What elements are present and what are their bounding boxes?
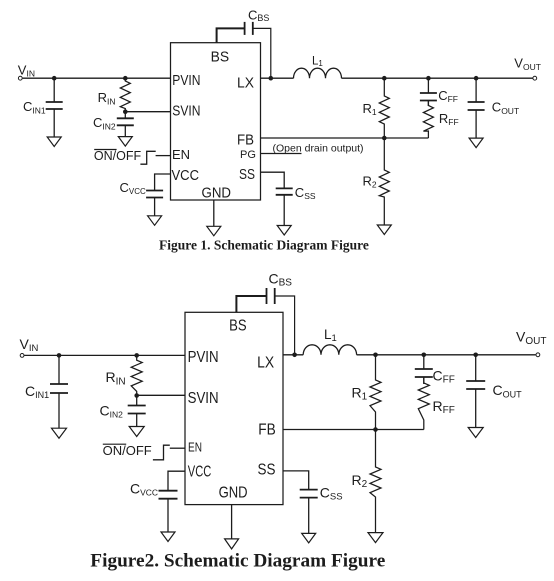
svg-text:FB: FB (258, 421, 276, 438)
Figure 2: node junction CBS/LX (292, 353, 297, 358)
svg-text:SS: SS (239, 166, 255, 183)
Figure 2: wire to SVIN pin (137, 394, 185, 396)
svg-text:ON/OFF: ON/OFF (103, 443, 152, 458)
Figure 2: ground below COUT (468, 428, 483, 438)
Figure 2: node junction FB (373, 427, 378, 432)
Figure 1: wire PG pin (261, 153, 302, 155)
svg-text:GND: GND (202, 185, 232, 202)
Figure 1: ground below CSS (277, 226, 291, 236)
Figure 1: node junction FB (382, 136, 387, 141)
Figure 1: wire inductor to VOUT (342, 77, 535, 79)
Figure 1: ground below R2 (377, 225, 391, 235)
Figure 2: capacitor CVCC (159, 490, 178, 492)
Figure 1: resistor RFF (423, 101, 433, 139)
Figure 1: capacitor CIN1 (53, 78, 55, 102)
svg-text:PVIN: PVIN (188, 349, 219, 366)
Figure 2: overline on ON/ (103, 443, 126, 445)
Figure 2: wire VIN rail to PVIN pin (24, 354, 185, 356)
Figure 1: node junction R1 (382, 76, 387, 81)
Figure 1: capacitor CBS (244, 22, 246, 35)
Figure 1: wire FB pin to divider (261, 137, 429, 139)
Figure 1: capacitor COUT (475, 78, 477, 102)
Figure 2: resistor R2 (370, 430, 381, 533)
Figure 1: capacitor CFF (427, 78, 429, 93)
Figure 2: ground below GND pin (225, 539, 239, 549)
Figure 1: wire VIN rail to PVIN pin (23, 77, 171, 79)
svg-text:SVIN: SVIN (188, 390, 219, 407)
Figure 1: ground below CVCC (148, 216, 162, 226)
Figure 1: wire LX pin to inductor (261, 77, 294, 79)
svg-text:VCC: VCC (172, 167, 200, 184)
Figure 1: wire CBS to LX node (253, 28, 271, 78)
Figure 1: node junction RIN (123, 76, 128, 81)
Figure 2: wire FB pin to divider (283, 429, 424, 431)
Figure 2: wire VCC pin to CVCC (168, 471, 185, 491)
Figure 2: wire GND pin to ground (231, 505, 233, 539)
Figure 1: ground below GND pin (207, 226, 221, 236)
Figure 2: capacitor CIN1 (58, 355, 60, 384)
Figure 1: wire VCC pin to CVCC (155, 174, 171, 191)
Figure 2: capacitor COUT (475, 355, 477, 381)
svg-text:BS: BS (211, 48, 230, 65)
Figure 1: node junction CFF (426, 76, 431, 81)
svg-text:PVIN: PVIN (172, 72, 200, 89)
Figure 2: capacitor CFF (423, 355, 425, 369)
Figure 1: resistor R1 (379, 78, 389, 138)
Figure 2: node junction CIN1 (57, 353, 62, 358)
Figure 2: ground below CIN2 (129, 427, 144, 437)
Figure 2: node junction CFF (422, 353, 427, 358)
Figure 2: capacitor CSS (300, 489, 318, 491)
Figure 2: wire LX pin to inductor (283, 354, 303, 356)
svg-text:BS: BS (229, 317, 247, 334)
svg-text:EN: EN (188, 441, 202, 455)
Figure 2: wire BS pin to CBS (thick) (236, 296, 266, 312)
Figure 1: resistor R2 (379, 138, 389, 225)
Figure 2: node junction SVIN (134, 393, 139, 398)
svg-text:GND: GND (219, 485, 248, 502)
Figure 1: resistor RIN (120, 78, 130, 112)
Figure 1: node junction SVIN (123, 109, 128, 114)
Figure 1: node junction CIN1 (52, 76, 57, 81)
Figure 1: wire GND pin to ground (213, 200, 215, 226)
Figure 1: ground below CIN2 (118, 137, 132, 147)
Figure 2: output terminal circle (536, 353, 540, 357)
svg-text:Figure2. Schematic Diagram Fig: Figure2. Schematic Diagram Figure (90, 550, 385, 571)
Figure 2: capacitor CBS (266, 288, 268, 304)
Figure 2: wire SS pin to CSS (283, 471, 309, 490)
Figure 1: step waveform symbol at EN (140, 151, 155, 164)
Figure 1: IC U1 body (171, 43, 261, 200)
Figure 2: resistor RFF (418, 377, 429, 430)
svg-text:LX: LX (257, 354, 275, 371)
Figure 2: node junction R1 (373, 353, 378, 358)
Figure 1: overline on ON/ (94, 149, 116, 151)
svg-text:SVIN: SVIN (172, 103, 200, 120)
Figure 1: wire to EN pin (156, 155, 171, 157)
Figure 2: ground below CIN1 (52, 428, 67, 438)
Figure 2: inductor L1 (303, 345, 356, 355)
Figure 1: node junction CBS/LX (269, 76, 274, 81)
svg-text:ON/OFF: ON/OFF (94, 149, 142, 163)
svg-text:Figure 1. Schematic Diagram Fi: Figure 1. Schematic Diagram Figure (159, 238, 369, 253)
Figure 1: capacitor CSS (276, 187, 293, 189)
Figure 2: node junction RIN (134, 353, 139, 358)
Figure 1: capacitor CIN2 (124, 112, 126, 119)
svg-text:LX: LX (237, 74, 254, 91)
Figure 1: wire to SVIN pin (125, 111, 170, 113)
Figure 2: wire inductor to VOUT (357, 354, 536, 356)
svg-text:PG: PG (240, 149, 256, 161)
Figure 2: IC U2 body (185, 312, 283, 504)
svg-text:FB: FB (237, 131, 254, 148)
Figure 2: resistor R1 (370, 355, 381, 430)
Figure 2: ground below CSS (302, 533, 316, 543)
svg-text:VCC: VCC (188, 464, 212, 481)
Figure 2: input terminal circle (20, 354, 24, 358)
svg-text:EN: EN (172, 147, 190, 162)
Figure 1: input terminal circle (18, 76, 22, 80)
Figure 2: wire CBS to LX node (275, 296, 295, 355)
Figure 1: ground below CIN1 (47, 137, 61, 147)
svg-text:(Open drain output): (Open drain output) (273, 143, 364, 155)
Figure 2: node junction COUT (473, 353, 478, 358)
Figure 1: wire SS pin to CSS (261, 172, 285, 188)
Figure 1: wire BS pin to CBS (thick) (217, 28, 245, 42)
Figure 1: ground below COUT (469, 138, 483, 148)
Figure 2: ground below CVCC (161, 532, 175, 542)
Figure 1: capacitor CVCC (146, 190, 163, 192)
Figure 2: step waveform symbol at EN (153, 445, 170, 460)
Figure 2: wire to EN pin (170, 447, 185, 449)
Figure 1: node junction COUT (474, 76, 479, 81)
Figure 2: ground below R2 (368, 533, 383, 543)
Figure 2: capacitor CIN2 (136, 396, 138, 406)
Figure 1: output terminal circle (533, 76, 537, 80)
Figure 2: resistor RIN (131, 355, 142, 395)
Figure 1: inductor L1 (294, 68, 342, 78)
svg-text:SS: SS (258, 462, 276, 479)
